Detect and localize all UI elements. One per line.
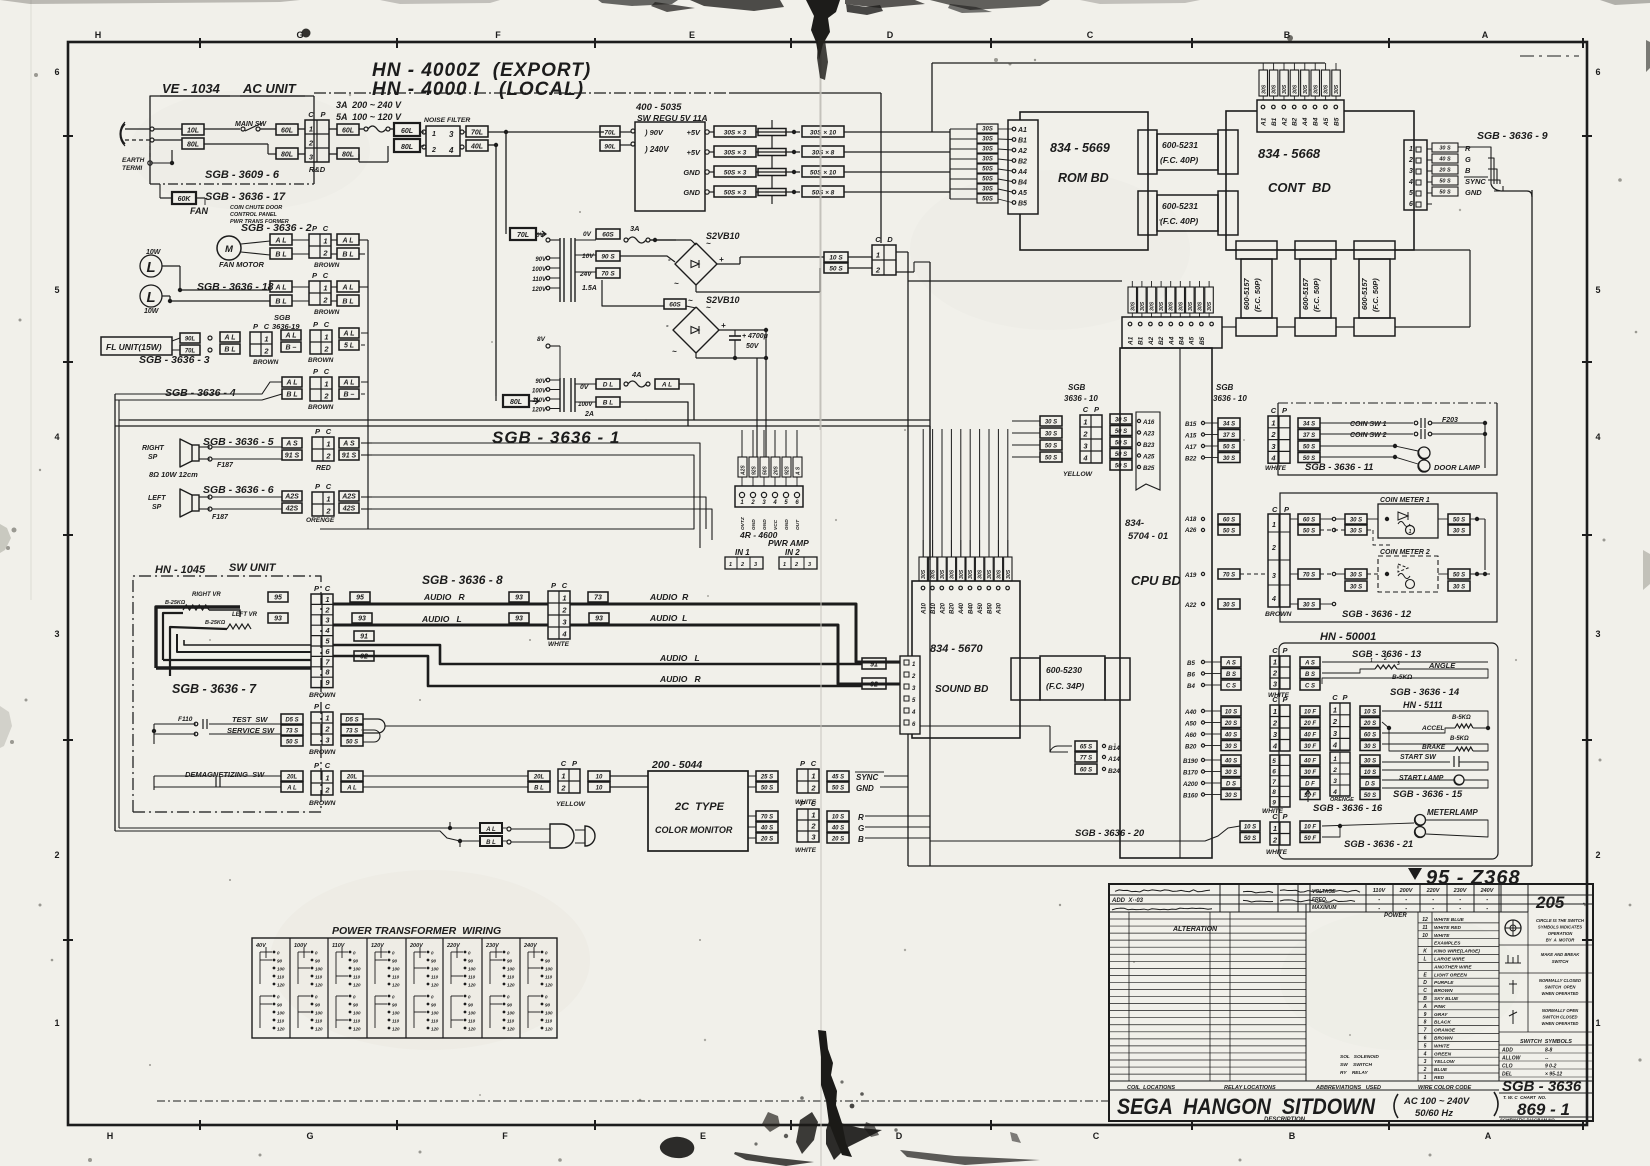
svg-text:110: 110 (392, 1019, 400, 1024)
svg-text:30S: 30S (978, 569, 984, 579)
svg-text:SGB - 3636 - 2: SGB - 3636 - 2 (241, 222, 312, 234)
meter1 wiring (1290, 518, 1298, 520)
svg-text:1: 1 (325, 774, 329, 783)
svg-text:4: 4 (772, 500, 777, 506)
wire boxes right of 9pin (350, 592, 370, 602)
svg-text:B5: B5 (1018, 201, 1027, 208)
svg-text:10 S: 10 S (829, 254, 843, 261)
svg-text:10 S: 10 S (1225, 709, 1237, 715)
svg-text:C: C (1272, 646, 1278, 655)
svg-text:90: 90 (392, 959, 398, 964)
svg-text:R: R (1465, 144, 1471, 153)
svg-text:A: A (1482, 30, 1489, 40)
svg-text:1: 1 (1271, 418, 1275, 427)
connector C-P start rows 5-9 (1270, 755, 1290, 807)
svg-text:SGB - 3636 - 9: SGB - 3636 - 9 (1477, 130, 1548, 142)
svg-text:30S × 10: 30S × 10 (810, 129, 837, 136)
svg-text:42S: 42S (285, 505, 299, 512)
svg-text:A4: A4 (1017, 169, 1027, 176)
svg-text:10 S: 10 S (1244, 824, 1256, 830)
svg-text:2: 2 (561, 606, 567, 615)
svg-text:120: 120 (353, 1027, 361, 1032)
svg-text:AUDIO R: AUDIO R (659, 674, 701, 684)
svg-text:VOLTAGE: VOLTAGE (1312, 889, 1336, 895)
svg-text:SP: SP (148, 454, 158, 461)
svg-text:× 95-12: × 95-12 (1545, 1072, 1562, 1078)
svg-text:ADD X··03: ADD X··03 (1111, 898, 1144, 904)
svg-text:A4: A4 (1168, 336, 1175, 346)
svg-text:GRAY: GRAY (1434, 1012, 1448, 1018)
svg-text:50S: 50S (982, 196, 993, 202)
svg-text:GND: GND (751, 519, 757, 530)
svg-text:HN - 5111: HN - 5111 (1403, 700, 1443, 710)
svg-text:40V: 40V (255, 943, 267, 949)
svg-text:2: 2 (325, 507, 331, 516)
svg-text:60 S: 60 S (1080, 767, 1092, 773)
svg-text:90: 90 (431, 1003, 437, 1008)
svg-text:834-: 834- (1125, 518, 1144, 529)
svg-text:GND: GND (683, 188, 700, 197)
wires left bus to degauss (119, 827, 450, 829)
svg-text:A23: A23 (1142, 431, 1155, 438)
svg-text:2: 2 (1272, 836, 1278, 845)
interboard cable 600-5230 (1011, 658, 1040, 700)
svg-text:205: 205 (1535, 893, 1565, 912)
svg-text:C S: C S (1226, 683, 1236, 689)
svg-text:BROWN: BROWN (314, 309, 340, 316)
svg-text:3636 - 10: 3636 - 10 (1064, 394, 1098, 403)
svg-text:START SW: START SW (1400, 754, 1437, 761)
svg-text:ANOTHER WIRE: ANOTHER WIRE (1433, 964, 1472, 970)
svg-text:DOOR LAMP: DOOR LAMP (1434, 463, 1481, 472)
svg-text:C: C (1272, 812, 1278, 821)
svg-text:600-5157: 600-5157 (1360, 277, 1369, 310)
svg-text:B L: B L (224, 346, 235, 353)
interboard cable 600-5231 lower (1138, 191, 1157, 235)
svg-text:70 S: 70 S (1223, 572, 1235, 578)
svg-text:1: 1 (324, 333, 328, 342)
wire boxes 95 93 at SW unit (268, 592, 288, 602)
svg-text:4A: 4A (631, 370, 642, 379)
svg-text:50 S: 50 S (1244, 836, 1256, 842)
svg-text:2: 2 (54, 850, 59, 860)
svg-text:2: 2 (1423, 1067, 1427, 1073)
svg-text:5: 5 (1595, 285, 1600, 295)
svg-text:834 - 5669: 834 - 5669 (1050, 141, 1110, 155)
svg-text:5: 5 (1409, 190, 1413, 197)
output wire boxes 30S/50S x3 (709, 131, 714, 133)
svg-text:PWR AMP: PWR AMP (768, 538, 809, 548)
svg-text:AUDIO L: AUDIO L (421, 614, 462, 624)
svg-text:C: C (811, 799, 817, 808)
svg-text:12: 12 (1422, 917, 1428, 923)
svg-text:60 S: 60 S (1364, 732, 1376, 738)
svg-text:WHEN OPERATED: WHEN OPERATED (1542, 1021, 1579, 1026)
wires sound bd right to cpu (1075, 741, 1097, 751)
svg-text:8: 8 (1424, 1020, 1427, 1026)
svg-text:95 - Z368: 95 - Z368 (1426, 867, 1521, 889)
svg-text:230V: 230V (485, 943, 500, 949)
svg-text:92: 92 (870, 681, 878, 688)
svg-text:B-25KΩ: B-25KΩ (205, 620, 226, 626)
svg-text:90L: 90L (604, 143, 615, 150)
svg-text:90: 90 (431, 959, 437, 964)
svg-text:2: 2 (322, 249, 328, 258)
svg-text:+5V: +5V (686, 148, 701, 157)
svg-text:20 S: 20 S (760, 836, 773, 842)
svg-text:~: ~ (674, 279, 679, 288)
svg-text:34 S: 34 S (1303, 421, 1315, 427)
svg-text:PURPLE: PURPLE (1434, 980, 1454, 986)
svg-text:C: C (875, 235, 881, 244)
paper mottling (270, 870, 590, 1050)
svg-text:10 F: 10 F (1304, 824, 1316, 830)
svg-text:20 S: 20 S (1363, 721, 1376, 727)
svg-text:120V: 120V (532, 287, 547, 293)
svg-text:B5: B5 (1333, 117, 1340, 126)
svg-text:B: B (1465, 166, 1471, 175)
svg-text:G: G (296, 30, 303, 40)
svg-text:1: 1 (811, 772, 815, 781)
svg-text:B22: B22 (1185, 456, 1197, 463)
svg-text:30S: 30S (1159, 301, 1165, 311)
svg-text:1: 1 (1409, 146, 1413, 153)
svg-text:LIGHT GREEN: LIGHT GREEN (1434, 972, 1467, 978)
svg-text:A2: A2 (1148, 336, 1155, 346)
svg-text:ROM BD: ROM BD (1058, 171, 1109, 185)
svg-text:BLACK: BLACK (1434, 1020, 1451, 1026)
svg-text:5 L: 5 L (344, 342, 354, 349)
PWR AMP 4R-4600 wire box stack (738, 457, 747, 477)
svg-text:B4: B4 (1187, 683, 1195, 690)
svg-text:7: 7 (1424, 1028, 1427, 1034)
svg-text:110: 110 (431, 975, 439, 980)
svg-text:34 S: 34 S (1223, 421, 1235, 427)
svg-text:C: C (1272, 695, 1278, 704)
wire label boxes before connector (276, 124, 298, 135)
svg-text:30S: 30S (987, 569, 993, 579)
svg-text:50S × 3: 50S × 3 (724, 189, 747, 196)
svg-text:SGB: SGB (1068, 383, 1086, 392)
wires test sw left (154, 723, 196, 725)
svg-text:100: 100 (277, 967, 285, 972)
svg-text:+5V: +5V (686, 128, 701, 137)
legend normally open symbol (1509, 1010, 1517, 1024)
svg-text:4: 4 (1423, 1051, 1427, 1057)
svg-text:B L: B L (603, 399, 614, 406)
svg-text:110V: 110V (332, 943, 346, 949)
svg-text:A5: A5 (1323, 117, 1330, 127)
bottom header row (1109, 1080, 1593, 1082)
svg-text:A2: A2 (1017, 148, 1027, 155)
svg-text:92S: 92S (752, 465, 758, 475)
svg-text:50V: 50V (746, 343, 760, 350)
svg-text:TEST SW: TEST SW (232, 715, 268, 724)
svg-text:B –: B – (344, 391, 355, 398)
svg-text:1: 1 (1272, 522, 1276, 529)
svg-text:90: 90 (315, 959, 321, 964)
svg-text:GND: GND (762, 519, 768, 530)
CONT BD top wire box stack (rotated) (1259, 70, 1268, 96)
svg-text:1: 1 (54, 1018, 59, 1028)
svg-text:30 S: 30 S (1225, 770, 1237, 776)
svg-text:110: 110 (545, 975, 553, 980)
svg-text:COIL LOCATIONS: COIL LOCATIONS (1127, 1085, 1175, 1091)
svg-text:SEGA HANGON SITDOWN: SEGA HANGON SITDOWN (1117, 1094, 1376, 1119)
svg-text:B20: B20 (950, 602, 956, 614)
power transformer lower winding (559, 378, 561, 412)
svg-text:80L: 80L (342, 151, 354, 158)
svg-text:AC 100 ~ 240V: AC 100 ~ 240V (1403, 1096, 1470, 1107)
svg-text:2: 2 (1270, 430, 1276, 439)
svg-text:60S: 60S (602, 231, 614, 238)
svg-text:50/60 Hz: 50/60 Hz (1415, 1108, 1453, 1119)
svg-text:IN 1: IN 1 (735, 548, 750, 557)
svg-text:SWITCH SYMBOLS: SWITCH SYMBOLS (1520, 1039, 1572, 1045)
svg-text:30 F: 30 F (1304, 744, 1316, 750)
svg-text:D5 S: D5 S (285, 717, 298, 723)
svg-text:93: 93 (515, 615, 523, 622)
svg-text:100V: 100V (294, 943, 308, 949)
svg-text:30 S: 30 S (1364, 758, 1376, 764)
lamp wiring (162, 265, 180, 267)
svg-text:50 S: 50 S (1115, 452, 1127, 458)
svg-text:70L: 70L (185, 348, 196, 354)
svg-text:FAN: FAN (190, 206, 209, 216)
svg-text:50 S: 50 S (1045, 443, 1057, 449)
svg-text:B5: B5 (1187, 660, 1195, 667)
SW unit dashed enclosure (133, 576, 321, 812)
svg-text:50S × 10: 50S × 10 (810, 169, 837, 176)
svg-text:110: 110 (315, 975, 323, 980)
thick wire loop in SW unit (156, 607, 240, 668)
svg-text:LARGE WIRE: LARGE WIRE (1434, 957, 1465, 963)
wires fan connector to right bus (359, 239, 368, 241)
interboard cable 600-5231 upper (1138, 130, 1157, 174)
svg-text:A26: A26 (1184, 527, 1197, 534)
wire boxes after noise filter (466, 126, 488, 137)
svg-text:CIRCLE IS THE SWITCH: CIRCLE IS THE SWITCH (1536, 918, 1585, 923)
svg-text:50 S: 50 S (1045, 455, 1057, 461)
svg-text:30S: 30S (949, 569, 955, 579)
lamp 10W lower (140, 285, 162, 307)
svg-text:C: C (1087, 30, 1094, 40)
svg-text:42S: 42S (342, 505, 356, 512)
svg-text:VCC: VCC (773, 519, 779, 530)
svg-text:B-5KΩ: B-5KΩ (1452, 715, 1471, 721)
svg-text:25 S: 25 S (760, 774, 773, 780)
bottom center ink blotch (818, 1030, 852, 1157)
svg-text:30S: 30S (982, 146, 993, 152)
svg-text:B50: B50 (987, 602, 993, 614)
svg-text:A L: A L (341, 284, 353, 291)
svg-text:3: 3 (1333, 778, 1337, 785)
svg-text:77 S: 77 S (1080, 755, 1092, 761)
svg-text:WHITE: WHITE (1434, 933, 1450, 939)
svg-text:110: 110 (277, 975, 285, 980)
svg-text:BRAKE: BRAKE (1422, 744, 1446, 751)
svg-text:A20: A20 (940, 602, 946, 615)
svg-text:600-5157: 600-5157 (1301, 277, 1310, 310)
svg-text:2: 2 (750, 500, 755, 506)
svg-text:SGB: SGB (1216, 383, 1234, 392)
svg-text:1: 1 (1083, 418, 1087, 427)
svg-text:5A 100 ~ 120 V: 5A 100 ~ 120 V (336, 112, 402, 122)
svg-text:400 - 5035: 400 - 5035 (635, 102, 682, 113)
svg-text:50S × 3: 50S × 3 (724, 169, 747, 176)
wire SGB-3636-4 to left bus (115, 382, 282, 394)
svg-text:WHITE: WHITE (1434, 1043, 1450, 1049)
CONT BD top connector (1257, 100, 1344, 132)
wire boxes A L B L degauss (480, 823, 502, 833)
svg-text:10: 10 (596, 774, 603, 780)
svg-text:SGB - 3636 - 20: SGB - 3636 - 20 (1075, 828, 1145, 839)
svg-text:1: 1 (876, 251, 880, 260)
svg-text:2: 2 (324, 786, 330, 795)
svg-text:SGB - 3609 - 6: SGB - 3609 - 6 (205, 169, 280, 181)
svg-text:30 S: 30 S (1350, 528, 1362, 534)
svg-text:KING WIRE(LARGE): KING WIRE(LARGE) (1434, 949, 1480, 955)
svg-text:10V: 10V (582, 253, 594, 260)
svg-text:100: 100 (392, 1011, 400, 1016)
svg-text:93: 93 (595, 615, 603, 622)
monitor right connector sync/gnd (756, 771, 778, 781)
svg-text:120: 120 (545, 1027, 553, 1032)
svg-text:110: 110 (353, 1019, 361, 1024)
svg-text:+ 4700μ: + 4700μ (742, 333, 769, 340)
svg-text:WHITE BLUE: WHITE BLUE (1434, 917, 1465, 923)
svg-text:C: C (323, 271, 329, 280)
svg-text:BY A MOTOR: BY A MOTOR (1546, 938, 1575, 943)
svg-text:90: 90 (507, 1003, 513, 1008)
svg-text:~: ~ (688, 296, 693, 305)
svg-text:A S: A S (342, 440, 355, 447)
svg-text:RELAY LOCATIONS: RELAY LOCATIONS (1224, 1085, 1276, 1091)
svg-text:A L: A L (285, 379, 297, 386)
fuse F on line (359, 128, 364, 130)
SOUND BD left connector (900, 656, 920, 734)
svg-text:GND: GND (683, 168, 700, 177)
svg-text:73: 73 (594, 594, 602, 601)
svg-text:A18: A18 (1184, 516, 1197, 523)
svg-text:100: 100 (315, 967, 323, 972)
wire AC top boundary to C-D connector (314, 92, 730, 94)
svg-text:B1: B1 (1018, 138, 1027, 145)
svg-text:D5 S: D5 S (345, 717, 358, 723)
svg-text:SYNC: SYNC (1465, 177, 1486, 186)
svg-text:G: G (306, 1131, 313, 1141)
svg-text:H: H (95, 30, 102, 40)
svg-text:B2: B2 (1018, 159, 1027, 166)
SGB-3636-9 wire labels R G B SYNC GND (1432, 143, 1458, 152)
svg-text:ABBREVIATIONS USED: ABBREVIATIONS USED (1315, 1085, 1381, 1091)
svg-text:92S: 92S (785, 465, 791, 475)
svg-text:4: 4 (1270, 454, 1276, 463)
svg-text:30S × 3: 30S × 3 (724, 129, 747, 136)
svg-text:B L: B L (486, 840, 496, 846)
SOUND BD top wire box stack (919, 557, 927, 581)
svg-text:60L: 60L (281, 127, 293, 134)
svg-text:50 S: 50 S (1303, 444, 1315, 450)
svg-text:A L: A L (274, 237, 286, 244)
svg-text:A30: A30 (997, 602, 1003, 615)
wires demag left (154, 775, 216, 777)
CPU BD edge connector A1-B5 (1122, 317, 1222, 348)
svg-text:SGB - 3636 - 5: SGB - 3636 - 5 (203, 436, 274, 448)
svg-text:100: 100 (507, 967, 515, 972)
CONT BD 834-5668 board box (1226, 111, 1414, 250)
svg-text:50 S: 50 S (829, 265, 843, 272)
svg-text:E: E (689, 30, 695, 40)
svg-text:30S: 30S (1130, 301, 1136, 311)
svg-text:869 - 1: 869 - 1 (1517, 1100, 1570, 1119)
svg-text:+: + (721, 321, 726, 330)
svg-text:8: 8 (1272, 789, 1276, 796)
svg-text:D S: D S (1365, 781, 1375, 787)
svg-text:600-5231: 600-5231 (1162, 140, 1198, 150)
svg-text:DEMAGNETIZING SW: DEMAGNETIZING SW (185, 770, 265, 779)
svg-text:100: 100 (392, 967, 400, 972)
svg-text:30S: 30S (931, 569, 937, 579)
svg-text:B10: B10 (931, 602, 937, 614)
svg-text:B14: B14 (1108, 745, 1120, 752)
SW REGU box (635, 122, 705, 211)
svg-text:4: 4 (324, 626, 330, 635)
svg-text:5: 5 (54, 285, 59, 295)
svg-text:37 S: 37 S (1303, 433, 1315, 439)
svg-text:1: 1 (326, 495, 330, 504)
svg-text:2: 2 (911, 674, 916, 680)
svg-text:COIN CHUTE DOOR: COIN CHUTE DOOR (230, 205, 282, 211)
svg-text:F: F (495, 30, 501, 40)
svg-text:A S: A S (1304, 660, 1315, 666)
svg-text:45 S: 45 S (831, 774, 844, 780)
svg-text:SGB - 3636 - 15: SGB - 3636 - 15 (1393, 789, 1463, 800)
svg-text:2: 2 (323, 345, 329, 354)
service wire to CPU BD (385, 725, 1050, 727)
svg-text:B2: B2 (1292, 117, 1299, 126)
svg-text:4: 4 (1408, 179, 1413, 186)
svg-text:220V: 220V (1426, 888, 1441, 894)
svg-text:COIN METER 2: COIN METER 2 (1380, 549, 1430, 556)
svg-text:73 S: 73 S (286, 728, 298, 734)
svg-text:~: ~ (672, 347, 677, 356)
svg-text:95: 95 (274, 594, 282, 601)
svg-text:50 S: 50 S (1439, 178, 1451, 184)
svg-text:50 S: 50 S (1223, 528, 1235, 534)
svg-text:MAXIMUM: MAXIMUM (1312, 905, 1337, 911)
svg-text:20S: 20S (774, 465, 780, 476)
svg-text:200V: 200V (1399, 888, 1414, 894)
svg-text:CPU BD: CPU BD (1131, 573, 1181, 588)
svg-text:B4: B4 (1313, 117, 1320, 126)
svg-text:B: B (1289, 1131, 1296, 1141)
svg-text:B –: B – (286, 344, 297, 351)
svg-text:2: 2 (1271, 545, 1276, 552)
svg-text:120: 120 (392, 983, 400, 988)
svg-text:RY RELAY: RY RELAY (1340, 1070, 1369, 1076)
svg-text:110: 110 (431, 1019, 439, 1024)
svg-text:30 S: 30 S (1350, 517, 1362, 523)
svg-text:C: C (326, 427, 332, 436)
svg-text:SKY BLUE: SKY BLUE (1434, 996, 1459, 1002)
svg-text:30S: 30S (982, 156, 993, 162)
svg-text:20 S: 20 S (831, 836, 844, 842)
svg-text:60L: 60L (401, 128, 413, 135)
svg-text:EARTH: EARTH (122, 157, 145, 164)
svg-text:A5: A5 (1017, 190, 1027, 197)
svg-text:40 S: 40 S (760, 825, 773, 831)
